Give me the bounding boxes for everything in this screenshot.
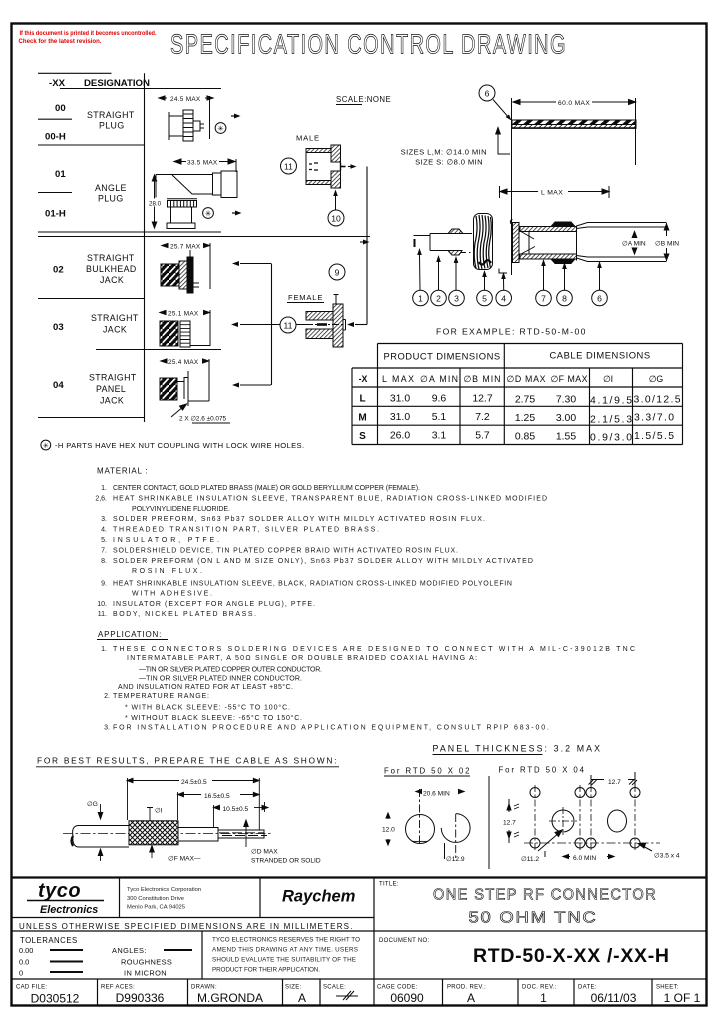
svg-text:31.0: 31.0 [390,412,410,423]
cable: jacket [63,821,273,847]
bottom soldershield strip [520,254,577,259]
svg-text:00: 00 [55,103,66,114]
designation table [38,73,370,422]
svg-text:* WITHOUT BLACK SLEEVE: -65°C: * WITHOUT BLACK SLEEVE: -65°C TO 150°C. [125,714,302,722]
svg-text:33.5 MAX: 33.5 MAX [187,160,218,167]
svg-text:DOC. REV.:: DOC. REV.: [522,985,557,991]
leader Ø11.2 [538,832,560,851]
hole circle A [406,815,435,844]
svg-text:4: 4 [501,294,506,304]
svg-text:✳: ✳ [205,209,211,218]
callout circle 11 (male) [281,158,297,174]
jack body row03 [160,321,178,346]
svg-text:PANEL: PANEL [96,384,126,394]
row divider 01/02 double [38,231,221,233]
row 00 straight plug drawing [159,96,213,141]
row divider 02/03 [38,298,145,300]
svg-text:5: 5 [482,294,487,304]
leader arrow row 01 [232,211,242,216]
jack body row04 [160,378,177,400]
svg-text:D030512: D030512 [31,992,80,1006]
bottom row labels [16,985,679,991]
svg-text:CAD FILE:: CAD FILE: [16,985,47,991]
svg-text:10.: 10. [97,601,107,608]
row 02 bulkhead jack drawing [161,243,210,293]
female interface drawing [306,294,346,347]
svg-text:04: 04 [53,380,64,391]
svg-text:50 OHM TNC: 50 OHM TNC [469,910,598,927]
svg-text:∅11.2: ∅11.2 [521,856,539,863]
svg-text:28.0: 28.0 [149,201,162,208]
row 01 angle plug drawing [152,159,237,229]
svg-text:TOLERANCES: TOLERANCES [20,936,78,945]
svg-text:10.5±0.5: 10.5±0.5 [223,806,249,813]
hole circle B partial [441,814,470,843]
svg-text:TYCO ELECTRONICS RESERVES THE: TYCO ELECTRONICS RESERVES THE RIGHT TO [212,937,360,944]
centerline [63,833,273,835]
svg-text:0.00: 0.00 [19,946,33,955]
svg-text:24.5±0.5: 24.5±0.5 [181,779,207,786]
bottom solder hump [551,259,575,264]
svg-text:SOLDER PREFORM, Sn63 Pb37 SOLD: SOLDER PREFORM, Sn63 Pb37 SOLDER ALLOY W… [113,516,485,523]
svg-text:11: 11 [284,162,293,172]
small holes bottom row [530,838,540,848]
svg-text:∅12.9: ∅12.9 [446,856,465,863]
leader arrow row 03 (to FEMALE) [231,322,280,327]
svg-text:SIZE:: SIZE: [285,985,302,991]
svg-text:INTERMATABLE PART, A 50Ω SINGL: INTERMATABLE PART, A 50Ω SINGLE OR DOUBL… [127,655,477,662]
svg-text:A: A [467,991,475,1005]
svg-text:26.0: 26.0 [390,431,410,442]
svg-text:MATERIAL :: MATERIAL : [97,467,149,476]
svg-text:∅I: ∅I [155,808,163,815]
svg-text:∅I: ∅I [603,374,613,384]
svg-text:INSULATOR, PTFE.: INSULATOR, PTFE. [113,537,219,544]
dimensions table [352,344,683,445]
dim 6.0 MIN [563,856,570,858]
leader to panel hole note [171,406,184,417]
svg-text:Check for the latest revision.: Check for the latest revision. [19,38,102,45]
svg-text:1.: 1. [101,646,107,653]
top solder hump item 8 [551,222,575,227]
tyco logo [27,880,104,916]
svg-text:RTD-50-X-XX /-XX-H: RTD-50-X-XX /-XX-H [473,945,669,967]
svg-text:9.6: 9.6 [432,394,447,405]
callout circle 9 [329,264,345,280]
item 4 solder preform mark [499,269,507,274]
svg-text:ANGLE: ANGLE [95,183,127,193]
dim A MIN [632,232,637,255]
svg-text:02: 02 [53,265,64,276]
svg-text:20.6 MIN: 20.6 MIN [423,791,450,798]
cable preparation drawing [127,778,268,830]
svg-text:tyco: tyco [38,880,81,902]
svg-text:STRAIGHT: STRAIGHT [91,313,139,323]
table header top line [38,72,112,74]
svg-text:∅A MIN: ∅A MIN [622,241,646,248]
center contact subassembly (items 1-3) [414,229,473,255]
svg-text:01-H: 01-H [45,209,66,220]
svg-text:11.: 11. [98,611,107,618]
dim 24.5 MAX row00 [159,97,167,99]
svg-text:JACK: JACK [100,275,124,285]
svg-text:1: 1 [418,294,423,304]
svg-text:CENTER CONTACT, GOLD PLATED BR: CENTER CONTACT, GOLD PLATED BRASS (MALE)… [113,485,420,492]
svg-text:MALE: MALE [296,134,320,143]
braid section [129,821,178,845]
svg-text:SPECIFICATION CONTROL DRAWING: SPECIFICATION CONTROL DRAWING [170,29,567,60]
svg-text:5.: 5. [101,537,107,544]
dim 10.5 line [214,807,221,809]
table vertical divider [144,73,146,422]
braid strip [512,120,636,128]
svg-text:PRODUCT FOR THEIR APPLICATION.: PRODUCT FOR THEIR APPLICATION. [212,967,320,974]
panel cutout for RTD 50 X 04 [507,772,660,859]
svg-text:7.: 7. [101,547,107,554]
svg-text:L: L [359,394,365,405]
callout circle 11 (female) [280,317,296,333]
svg-text:25.4 MAX: 25.4 MAX [168,359,199,366]
big hole left [552,810,574,832]
lower body row01 [170,207,172,223]
svg-text:7: 7 [541,294,546,304]
dim 60.0 MAX [512,98,636,275]
svg-text:CABLE DIMENSIONS: CABLE DIMENSIONS [550,350,651,361]
svg-text:1.55: 1.55 [556,432,576,443]
svg-text:12.7: 12.7 [503,820,516,827]
svg-text:03: 03 [53,322,64,333]
svg-text:60.0 MAX: 60.0 MAX [558,100,590,107]
svg-text:FEMALE: FEMALE [288,293,323,302]
svg-text:4.: 4. [101,527,107,534]
svg-text:5.7: 5.7 [475,431,490,442]
leader Ø3.5 x 4 [641,845,652,851]
callout leaders 1-8 [420,255,600,290]
svg-text:1: 1 [540,991,547,1005]
svg-text:SCALE:: SCALE: [323,985,346,991]
svg-text:AND INSULATION RATED FOR A: AND INSULATION RATED FOR AT LEAST +85°C. [118,683,293,691]
dim 25.1 MAX row03 [160,312,166,314]
svg-text:For RTD 50 X 04: For RTD 50 X 04 [499,766,585,775]
svg-text:3.: 3. [101,516,107,523]
svg-text:POLYVINYLIDENE FLUORIDE.: POLYVINYLIDENE FLUORIDE. [132,506,230,513]
footer outer top border [12,876,708,878]
tyco address [127,887,201,911]
big hole right [608,810,627,832]
svg-text:∅G: ∅G [649,374,664,384]
svg-text:TITLE:: TITLE: [379,882,399,888]
arrow on male bus [360,240,370,245]
svg-text:CAGE CODE:: CAGE CODE: [377,985,418,991]
svg-text:DOCUMENT NO:: DOCUMENT NO: [379,938,430,944]
svg-text:Menlo Park, CA 94025: Menlo Park, CA 94025 [127,905,185,911]
svg-text:-X: -X [359,374,368,384]
svg-text:SIZE S: ∅8.0 MIN: SIZE S: ∅8.0 MIN [415,158,483,167]
bottom row values [31,991,701,1006]
svg-text:STRAIGHT: STRAIGHT [89,373,137,383]
underline under 01 [38,192,72,194]
svg-text:∅D MAX: ∅D MAX [251,849,278,856]
svg-text:8.: 8. [101,558,107,565]
female bus line [271,264,273,386]
svg-text:2,6.: 2,6. [95,495,107,502]
svg-text:HEAT SHRINKABLE INSULATION SLE: HEAT SHRINKABLE INSULATION SLEEVE, TRANS… [113,495,547,502]
svg-text:JACK: JACK [103,325,127,335]
dim B MIN [664,223,669,262]
svg-text:2: 2 [436,294,441,304]
svg-text:12.0: 12.0 [382,827,395,834]
angle plug body row01 [156,175,213,198]
male bus line [366,167,368,325]
red uncontrolled-document warning [19,30,157,45]
dim 20.6 MIN [416,791,421,793]
svg-text:1.: 1. [101,485,107,492]
svg-text:DATE:: DATE: [578,985,597,991]
male center pin 1 [340,163,342,171]
svg-text:3.: 3. [104,725,110,732]
svg-text:16.5±0.5: 16.5±0.5 [204,793,230,800]
leader arrow into female [347,322,367,327]
svg-text:-XX: -XX [49,78,66,89]
row bottom line [38,417,145,419]
svg-text:HEAT SHRINKABLE INSULATION SLE: HEAT SHRINKABLE INSULATION SLEEVE, BLACK… [113,580,512,587]
svg-text:FOR EXAMPLE: RTD-50-M-00: FOR EXAMPLE: RTD-50-M-00 [436,327,586,337]
svg-text:2.: 2. [104,693,110,700]
svg-text:∅A MIN: ∅A MIN [420,374,458,384]
item 5 insulator disc [474,214,493,270]
svg-text:7.2: 7.2 [475,412,490,423]
svg-text:5.1: 5.1 [432,412,447,423]
dim 12.7 left vertical [508,799,510,812]
svg-text:12.7: 12.7 [608,779,621,786]
svg-text:ANGLES:: ANGLES: [112,946,147,955]
svg-text:2.75: 2.75 [515,395,535,406]
svg-text:0.85: 0.85 [515,432,535,443]
svg-text:FOR BEST RESULTS, PREPARE: FOR BEST RESULTS, PREPARE THE CABLE AS S… [37,756,337,766]
svg-text:ONE STEP RF CONNECTOR: ONE STEP RF CONNECTOR [433,887,657,904]
svg-text:SHOULD EVALUATE THE SUITABILIT: SHOULD EVALUATE THE SUITABILITY OF THE [212,957,356,964]
svg-text:300 Constitution Drive: 300 Constitution Drive [127,896,184,902]
small holes top row [530,788,540,798]
svg-text:∅D MAX: ∅D MAX [507,374,546,384]
leader arrow row 02 [232,261,271,266]
dim 25.4 MAX row04 [161,360,167,362]
svg-text:✳: ✳ [43,442,49,450]
svg-text:31.0: 31.0 [390,394,410,405]
row divider 00/01 [38,144,145,146]
dim Ø12.9 leader [444,843,446,859]
row divider 03/04 [96,349,221,351]
svg-text:∅G: ∅G [87,801,98,808]
svg-text:10: 10 [331,214,341,224]
cable to right [612,222,666,224]
leader arrow row 04 [232,383,271,388]
svg-text:A: A [298,991,306,1005]
jack body row02 [161,264,179,286]
panel cutout for RTD 50 X 02 [386,789,470,859]
svg-text:PLUG: PLUG [98,194,124,204]
svg-text:For RTD 50 X 02: For RTD 50 X 02 [384,767,470,776]
svg-text:DESIGNATION: DESIGNATION [84,78,150,89]
svg-text:SHEET:: SHEET: [656,985,679,991]
centerline horizontal bottom [524,842,660,844]
dim 12.0 [387,813,389,819]
footer vertical dividers [119,878,121,918]
svg-text:01: 01 [55,169,66,180]
callout circle 10 with leader [328,210,344,226]
svg-text:06090: 06090 [390,991,424,1005]
top soldershield strip [520,227,577,232]
footer horizontal lines left [12,917,375,919]
dim 24.5 line [127,780,179,782]
underline under 00 [38,118,72,120]
svg-text:3.1: 3.1 [432,431,447,442]
svg-text:PRODUCT DIMENSIONS: PRODUCT DIMENSIONS [384,351,501,362]
note: -H parts have hex nut coupling [41,440,305,450]
svg-text:1.25: 1.25 [515,413,535,424]
svg-text:∅F MAX—: ∅F MAX— [168,856,201,863]
dielectric [178,828,218,842]
svg-text:Raychem: Raychem [282,888,355,906]
centerlines vertical [535,785,635,850]
svg-text:ROUGHNESS: ROUGHNESS [121,958,172,967]
separator between panel drawings [488,776,490,869]
svg-text:JACK: JACK [100,396,124,406]
svg-text:∅B MIN: ∅B MIN [464,374,501,384]
svg-text:Electronics: Electronics [40,904,98,916]
svg-text:SCALE:NONE: SCALE:NONE [336,95,391,104]
main body assembly [510,220,666,264]
svg-text:DRAWN:: DRAWN: [191,985,217,991]
svg-text:12.7: 12.7 [472,394,492,405]
svg-text:* WITH BLACK SLEEVE: -55°C TO: * WITH BLACK SLEEVE: -55°C TO 100°C. [125,703,290,711]
svg-text:3.00: 3.00 [556,413,576,424]
svg-text:If this document is printed it: If this document is printed it becomes u… [20,30,157,37]
svg-text:—TIN OR SILVER PLATED COPPER O: —TIN OR SILVER PLATED COPPER OUTER CONDU… [139,667,322,674]
svg-text:S: S [359,431,366,442]
svg-text:6: 6 [485,89,490,99]
svg-text:SIZES L,M: ∅14.0 MIN: SIZES L,M: ∅14.0 MIN [401,148,487,157]
svg-text:6.0 MIN: 6.0 MIN [573,855,596,862]
scale symbol [336,991,358,1000]
svg-text:REF ACES:: REF ACES: [101,985,135,991]
dim 28.0 row01 vertical [154,176,156,227]
callout circle 6 (braid) with leader [479,85,495,101]
svg-text:IN MICRON: IN MICRON [124,969,167,978]
line under header [60,88,221,90]
svg-text:0.0: 0.0 [19,958,29,967]
svg-text:2 X ∅2.6 ±0.075: 2 X ∅2.6 ±0.075 [179,416,227,423]
svg-text:PROD. REV.:: PROD. REV.: [447,985,486,991]
svg-text:BULKHEAD: BULKHEAD [86,264,137,274]
svg-text:7.30: 7.30 [556,395,576,406]
svg-text:9: 9 [335,268,340,278]
svg-text:M.GRONDA: M.GRONDA [197,991,263,1005]
svg-text:BODY, NICKEL PLATED BRASS.: BODY, NICKEL PLATED BRASS. [113,611,256,618]
svg-text:∅F MAX: ∅F MAX [551,374,588,384]
hex-nut symbol row 00-H [215,123,226,134]
svg-text:STRANDED OR SOLID: STRANDED OR SOLID [251,858,321,865]
left end cap [513,223,520,263]
center conductor [218,830,264,838]
svg-text:8: 8 [562,294,567,304]
svg-text:D990336: D990336 [116,991,165,1005]
male interface drawing [306,145,346,188]
svg-text:0: 0 [19,969,23,978]
dim L MAX [500,186,610,198]
svg-text:25.7 MAX: 25.7 MAX [170,244,201,251]
svg-text:SOLDERSHIELD DEVICE, TIN PLATE: SOLDERSHIELD DEVICE, TIN PLATED COPPER B… [113,547,458,554]
disclaimer text [212,937,360,974]
svg-text:M: M [358,412,366,423]
svg-text:Tyco Electronics Corporation: Tyco Electronics Corporation [127,887,201,893]
svg-text:9.: 9. [101,580,107,587]
svg-text:06/11/03: 06/11/03 [591,991,637,1005]
svg-text:TEMPERATURE RANGE:: TEMPERATURE RANGE: [113,693,209,700]
svg-text:STRAIGHT: STRAIGHT [87,110,135,120]
female center contact [306,324,346,326]
svg-text:∅3.5 x 4: ∅3.5 x 4 [654,853,680,860]
heat shrink sleeve wings [577,223,613,227]
body box [528,232,530,255]
leader for sizes note [496,128,510,155]
svg-text:∅B MIN: ∅B MIN [655,241,679,248]
svg-text:—TIN OR SILVER PLATED INNER CO: —TIN OR SILVER PLATED INNER CONDUCTOR. [139,675,302,682]
knurled nut row01 [167,198,197,200]
dim 16.5 line [178,794,202,796]
plug body row00 [168,112,170,140]
svg-text:INSULATOR (EXCEPT FOR ANGLE PL: INSULATOR (EXCEPT FOR ANGLE PLUG), PTFE. [113,601,315,608]
svg-text:STRAIGHT: STRAIGHT [87,253,135,263]
row 03 straight jack drawing [160,310,210,347]
svg-text:24.5 MAX: 24.5 MAX [170,96,201,103]
dim 12.7 top [591,779,604,781]
svg-text:11: 11 [284,321,293,331]
svg-text:1 OF 1: 1 OF 1 [664,991,701,1005]
svg-text:AMEND THIS DRAWING AT ANY TIME: AMEND THIS DRAWING AT ANY TIME. USERS [212,947,358,954]
svg-text:25.1 MAX: 25.1 MAX [168,311,199,318]
dim 33.5 MAX row01 [174,161,186,163]
hex-nut symbol row 01-H [203,208,214,219]
leader arrow into male pin [348,164,357,169]
svg-text:✳: ✳ [217,124,223,133]
svg-text:SOLDER PREFORM (ON L AND M SIZ: SOLDER PREFORM (ON L AND M SIZE ONLY), S… [113,558,533,565]
svg-text:00-H: 00-H [45,132,66,143]
svg-text:6: 6 [597,294,602,304]
svg-text:PLUG: PLUG [99,121,125,131]
svg-text:-H PARTS HAVE HEX NUT COUPLING: -H PARTS HAVE HEX NUT COUPLING WITH LOCK… [55,441,305,450]
svg-text:APPLICATION:: APPLICATION: [98,630,162,639]
svg-text:L MAX: L MAX [541,190,563,197]
leader arrow row 00 [231,114,241,119]
dim 25.7 MAX row02 [162,245,168,247]
svg-text:3: 3 [454,294,459,304]
callout circles 1-8 bottom row [413,290,608,306]
svg-text:UNLESS OTHERWISE SPECIFIED: UNLESS OTHERWISE SPECIFIED DIMENSIONS AR… [19,922,353,931]
row 04 panel jack drawing [160,359,209,417]
svg-text:FOR INSTALLATION PROCEDURE AND: FOR INSTALLATION PROCEDURE AND APPLICATI… [113,725,549,732]
